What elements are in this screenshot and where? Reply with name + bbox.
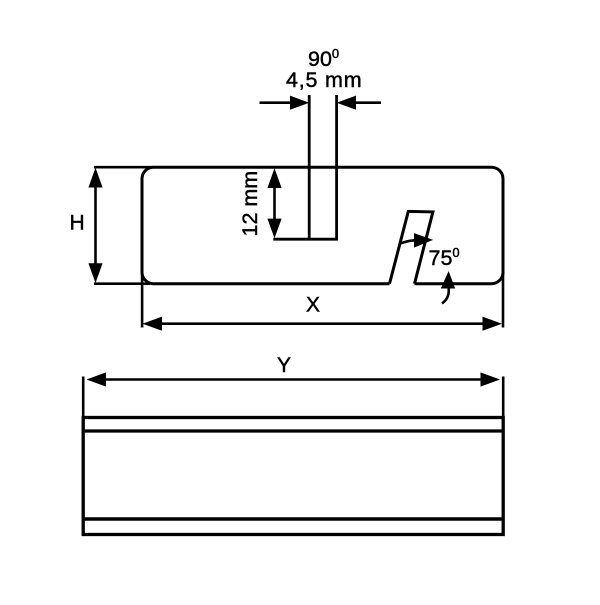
- X dimension line with arrows: [143, 317, 503, 331]
- slot left wall: [308, 95, 311, 240]
- H dimension bottom extension line: [94, 282, 150, 285]
- svg-text:750: 750: [429, 245, 460, 270]
- top view blade profile outline (rounded rectangle with bottom gap): [142, 167, 503, 284]
- Y dimension line with arrows: [87, 372, 501, 386]
- bottom view lower inner line: [85, 517, 502, 521]
- svg-text:H: H: [70, 211, 85, 234]
- Y dimension right extension line: [502, 377, 505, 419]
- bevel cut parallelogram (75 degree slot): [390, 211, 433, 283]
- svg-text:X: X: [306, 293, 320, 316]
- 4,5 mm dimension line right segment with arrow: [337, 96, 381, 110]
- X dimension right extension line: [502, 255, 505, 328]
- bottom view outer rectangle: [83, 418, 503, 535]
- 75 degree arc arrow pointing at bevel: [400, 233, 434, 248]
- 4,5 mm dimension line left segment with arrow: [260, 96, 310, 110]
- slot bottom line: [273, 238, 338, 241]
- bottom view upper inner line: [85, 429, 502, 432]
- svg-text:12 mm: 12 mm: [238, 171, 262, 237]
- H dimension line with arrows: [88, 168, 102, 283]
- Y dimension left extension line: [82, 377, 85, 419]
- slot right wall: [335, 95, 338, 240]
- svg-text:4,5 mm: 4,5 mm: [286, 68, 362, 92]
- 12 mm dimension line with arrows: [267, 168, 281, 238]
- 75 degree up arrow with curved tail: [441, 271, 455, 304]
- X dimension left extension line: [141, 255, 144, 328]
- svg-text:Y: Y: [277, 354, 291, 377]
- H dimension top extension line: [94, 166, 154, 169]
